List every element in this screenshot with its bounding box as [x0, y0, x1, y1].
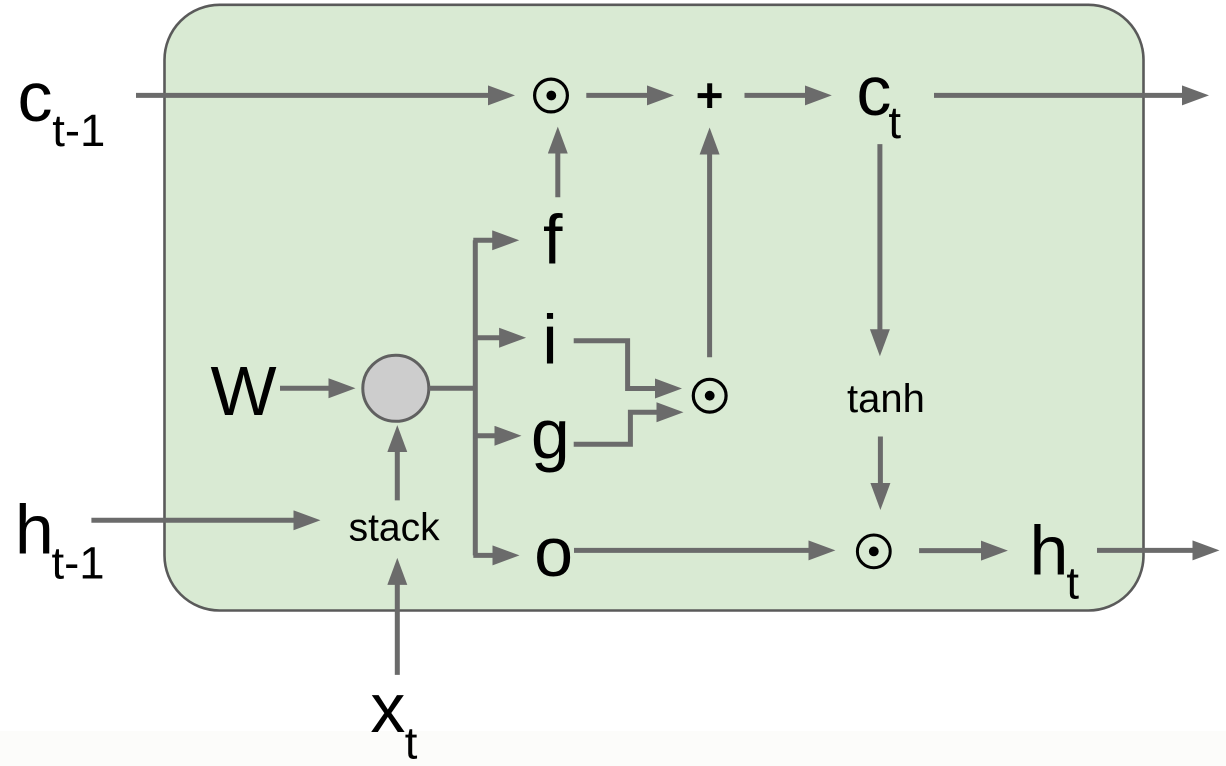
- wire x_t up to stack: [395, 584, 400, 675]
- node x_t label: [370, 669, 417, 766]
- svg-text:tanh: tanh: [847, 377, 925, 421]
- node h_{t-1} label: [15, 491, 105, 589]
- odot element 1 (forget gate multiply): [535, 79, 568, 112]
- wire circle to branch: [429, 386, 477, 391]
- svg-text:t: t: [1066, 558, 1079, 609]
- branch vertical wire: [473, 240, 478, 555]
- wire c_t down to tanh: [877, 144, 882, 330]
- wire g to odot2: [574, 412, 657, 444]
- wire odot1 to plus: [586, 93, 647, 98]
- svg-text:g: g: [531, 395, 570, 473]
- wire i to odot2: [574, 341, 656, 389]
- wire h_t to output (right): [1097, 548, 1193, 553]
- svg-text:h: h: [15, 491, 54, 569]
- wire W to stack circle: [280, 386, 329, 391]
- svg-text:o: o: [534, 513, 573, 591]
- node h_t label: [1030, 512, 1080, 609]
- stack circle (gray): [363, 355, 429, 421]
- svg-text:t: t: [888, 97, 901, 148]
- wire h_{t-1} to stack: [91, 518, 294, 523]
- node c_{t-1} label: [18, 58, 106, 156]
- LSTM cell body (rounded rect): [165, 5, 1144, 611]
- svg-text:c: c: [18, 58, 53, 136]
- svg-text:t-1: t-1: [52, 105, 105, 156]
- wire branch to g: [473, 433, 495, 438]
- wire odot3 to h_t: [919, 548, 981, 553]
- odot element 3 (output multiply): [857, 535, 890, 568]
- wire f up to odot1: [555, 153, 560, 197]
- node c_t label: [856, 52, 901, 148]
- wire tanh down to odot3: [878, 437, 883, 484]
- wire branch to f: [473, 238, 492, 243]
- wire c_t to output (right): [934, 93, 1183, 98]
- wire o to odot3: [574, 548, 809, 553]
- svg-text:stack: stack: [349, 507, 441, 550]
- svg-text:c: c: [856, 52, 891, 130]
- svg-text:t: t: [405, 718, 418, 766]
- svg-text:W: W: [211, 352, 277, 430]
- plus (cell state add): [698, 83, 722, 108]
- bottom band: [0, 731, 1226, 766]
- svg-text:t-1: t-1: [52, 537, 105, 588]
- svg-text:x: x: [370, 669, 405, 747]
- wire branch to o: [473, 553, 493, 558]
- wire odot2 up to plus: [707, 154, 712, 357]
- wire branch to i: [473, 335, 499, 340]
- wire plus to c_t: [745, 93, 806, 98]
- wire stack up to circle: [395, 452, 400, 501]
- svg-text:h: h: [1030, 512, 1069, 590]
- wire c_{t-1} to odot1: [136, 93, 489, 98]
- svg-text:f: f: [543, 201, 563, 279]
- odot element 2 (i*g multiply): [693, 379, 726, 412]
- svg-text:i: i: [542, 301, 558, 379]
